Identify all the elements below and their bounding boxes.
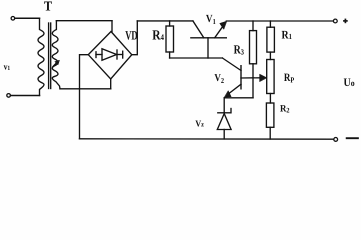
svg-text:Uo: Uo (344, 77, 356, 89)
svg-text:Vz: Vz (195, 118, 204, 128)
svg-text:R3: R3 (234, 43, 244, 57)
svg-text:R1: R1 (282, 29, 293, 42)
svg-text:R2: R2 (280, 103, 290, 114)
svg-text:RP: RP (284, 72, 295, 85)
svg-text:VD: VD (125, 28, 137, 42)
svg-text:T: T (44, 0, 52, 14)
svg-text:v1: v1 (4, 61, 11, 72)
svg-text:V2: V2 (214, 73, 224, 85)
svg-text:R4: R4 (152, 28, 164, 43)
svg-text:V1: V1 (206, 13, 216, 26)
